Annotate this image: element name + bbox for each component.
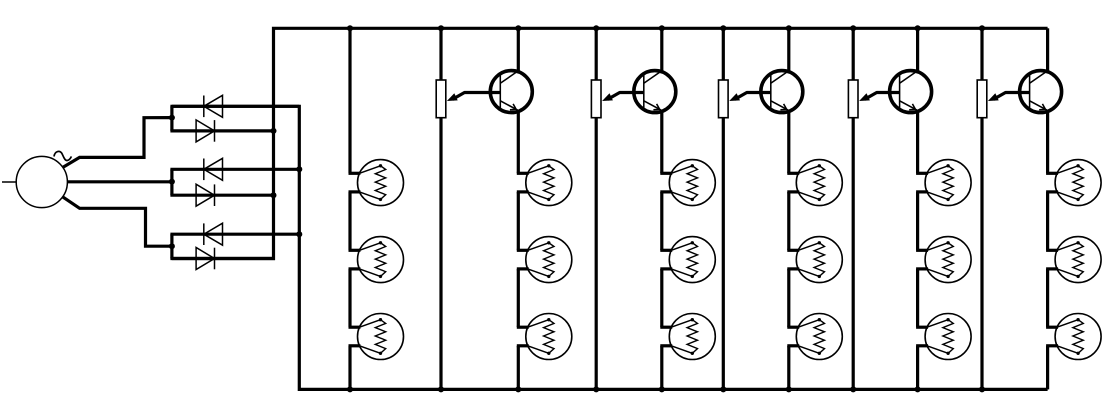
wire column vertical	[660, 346, 663, 390]
lamp L18	[1046, 314, 1101, 360]
wire phase 3 left vertical	[170, 234, 173, 258]
wire phase 2 left vertical	[170, 169, 173, 195]
potentiometer R5	[977, 80, 987, 118]
potentiometer R1	[436, 80, 446, 118]
diode D3 (cathode left)	[204, 158, 223, 180]
generator left terminal lead	[2, 181, 16, 183]
node top bus junction	[979, 25, 985, 31]
wire column vertical	[348, 192, 351, 250]
node top bus junction	[438, 25, 444, 31]
lamp L11	[787, 237, 842, 283]
node phase 2 junction	[169, 179, 175, 185]
wire column vertical	[1046, 192, 1049, 250]
lamp L1	[349, 160, 404, 206]
diode D2 (cathode right)	[196, 120, 214, 142]
wire column vertical	[660, 192, 663, 250]
wire pot column upper	[722, 28, 725, 80]
wire column vertical	[916, 346, 919, 390]
wiper arrow of R2	[602, 93, 613, 101]
wiper arrow of R3	[729, 93, 740, 101]
wire column vertical	[517, 269, 520, 327]
diode D1 (cathode left)	[204, 95, 223, 117]
wire pot column upper	[595, 28, 598, 80]
node top bus junction	[347, 25, 353, 31]
diode D5 (cathode left)	[204, 223, 223, 245]
node top bus junction	[515, 25, 521, 31]
wire diode D1 branch	[170, 105, 299, 108]
wire collector from top bus	[787, 28, 790, 71]
lamp L15	[916, 314, 971, 360]
node top bus junction	[786, 25, 792, 31]
wire diode D3 branch	[170, 168, 299, 171]
node bus A row1 junction	[271, 128, 277, 134]
lamp L10	[787, 160, 842, 206]
wire column vertical	[348, 269, 351, 327]
lamp L5	[517, 237, 572, 283]
wire column vertical	[517, 346, 520, 390]
diode D6 (cathode right)	[196, 248, 214, 270]
wire positive bus (top)	[172, 28, 1048, 258]
wiper arrow of R4	[859, 93, 870, 101]
node bottom bus junction	[915, 386, 921, 392]
node top bus junction	[720, 25, 726, 31]
potentiometer R3	[719, 80, 729, 118]
lamp L8	[660, 237, 715, 283]
node bottom bus junction	[347, 386, 353, 392]
node top bus junction	[915, 25, 921, 31]
wire collector from top bus	[517, 28, 520, 71]
potentiometer R2	[591, 80, 601, 118]
wire base to wiper	[735, 93, 771, 100]
wire base to wiper	[865, 93, 900, 100]
lamp L2	[349, 237, 404, 283]
node bottom bus junction	[438, 386, 444, 392]
lamp L17	[1046, 237, 1101, 283]
wire collector from top bus	[660, 28, 663, 71]
wire column vertical	[660, 269, 663, 327]
lamp L3	[349, 314, 404, 360]
lamp L7	[660, 160, 715, 206]
wire phase 1 left vertical	[170, 106, 173, 131]
node bottom bus junction	[786, 386, 792, 392]
transistor Q1	[490, 71, 532, 113]
wire base to wiper	[608, 93, 644, 100]
wire collector from top bus	[1046, 28, 1049, 71]
node bottom bus junction	[659, 386, 665, 392]
lamp L6	[517, 314, 572, 360]
node bottom bus junction	[515, 386, 521, 392]
transistor Q2	[634, 71, 676, 113]
node bottom bus junction	[593, 386, 599, 392]
lamp L12	[787, 314, 842, 360]
diode D4 (cathode right)	[196, 184, 214, 206]
lamp L14	[916, 237, 971, 283]
wire pot column lower	[595, 118, 598, 390]
transistor Q5	[1020, 71, 1062, 113]
wire phase 2 lead	[68, 180, 172, 183]
wiper arrow of R5	[988, 93, 999, 101]
transistor Q4	[890, 71, 932, 113]
wire pot column lower	[722, 118, 725, 390]
wire column vertical	[517, 113, 520, 174]
wire diode D4 branch	[170, 194, 275, 197]
node phase 3 junction	[169, 243, 175, 249]
wire column vertical	[660, 113, 663, 174]
wire column vertical	[916, 192, 919, 250]
wire column vertical	[1046, 346, 1049, 390]
wire column vertical	[787, 269, 790, 327]
node bottom bus junction	[979, 386, 985, 392]
transistor Q3	[761, 71, 803, 113]
wire pot column lower	[852, 118, 855, 390]
generator G1	[16, 151, 71, 207]
wiper arrow of R1	[447, 93, 458, 101]
wire column vertical	[1046, 113, 1049, 174]
wire column vertical	[348, 346, 351, 390]
node bottom bus junction	[850, 386, 856, 392]
node bottom bus junction	[720, 386, 726, 392]
wire negative bus (bottom)	[172, 106, 1048, 389]
wire collector from top bus	[916, 28, 919, 71]
wire phase 1 lead	[62, 118, 171, 168]
wire pot column upper	[852, 28, 855, 80]
node bus B row2 junction	[296, 166, 302, 172]
wire base to wiper	[453, 93, 501, 100]
node phase 1 junction	[169, 115, 175, 121]
node top bus junction	[659, 25, 665, 31]
wire diode D2 branch	[170, 129, 275, 132]
wire base to wiper	[994, 93, 1030, 100]
wire column vertical	[348, 28, 351, 173]
wire phase 3 lead	[62, 197, 171, 247]
potentiometer R4	[848, 80, 858, 118]
wire column vertical	[916, 113, 919, 174]
wire column vertical	[916, 269, 919, 327]
node bus B row3 junction	[296, 231, 302, 237]
node top bus junction	[593, 25, 599, 31]
wire column vertical	[1046, 269, 1049, 327]
wire diode D6 branch	[170, 257, 275, 260]
wire column vertical	[517, 192, 520, 250]
wire column vertical	[787, 346, 790, 390]
lamp L9	[660, 314, 715, 360]
wire pot column lower	[980, 118, 983, 390]
node bus A row2 junction	[271, 192, 277, 198]
wire column vertical	[787, 192, 790, 250]
lamp L16	[1046, 160, 1101, 206]
wire column vertical	[787, 113, 790, 174]
lamp L13	[916, 160, 971, 206]
node top bus junction	[850, 25, 856, 31]
wire pot column lower	[439, 118, 442, 390]
wire diode D5 branch	[170, 233, 299, 236]
wire pot column upper	[980, 28, 983, 80]
lamp L4	[517, 160, 572, 206]
wire pot column upper	[439, 28, 442, 80]
